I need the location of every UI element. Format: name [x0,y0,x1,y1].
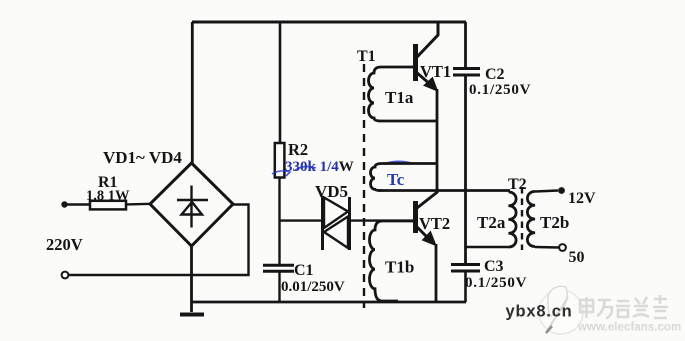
wire: R1 to bridge left corner [126,203,151,206]
wire: VD5 to VT2 base [350,219,415,221]
wire: VT1 emitter down to mid bus [436,89,439,191]
winding T2a [509,192,517,247]
svg-text:T2b: T2b [540,213,569,232]
resistor R2 body [275,143,285,178]
svg-text:T1: T1 [357,48,376,65]
svg-text:VT2: VT2 [419,214,450,233]
svg-text:12V: 12V [568,190,596,207]
wire: T2a bottom return to C3 branch [466,246,509,249]
watermark chinese characters [580,295,668,318]
svg-text:T2: T2 [508,176,527,193]
wire: mid bus from Tc to T2a [378,189,510,192]
capacitor C3 plates [451,263,480,266]
svg-text:Tc: Tc [387,170,405,189]
wire: T2b top to 12V terminal [535,191,558,192]
svg-text:VD5: VD5 [315,182,348,201]
node: 12V terminal (filled dot) [558,187,565,194]
bridge inner diode [177,186,208,228]
svg-text:VD1~ VD4: VD1~ VD4 [103,148,182,167]
svg-text:T1b: T1b [385,258,414,277]
wire: C1 bottom to ground bus [278,271,280,302]
blue ink mark over R2 value [272,166,316,176]
wire: bridge bottom corner down to ground bus [190,246,193,312]
node: 220V neutral terminal (open circle) [62,272,69,279]
wire: R2 branch from top bus [279,22,282,143]
svg-text:0.01/250V: 0.01/250V [281,279,345,295]
watermark logo circle [539,286,583,334]
wire: right vertical top bus to C2 [464,22,467,69]
wire: junction to VD5 [280,219,323,221]
svg-text:R2: R2 [288,140,308,159]
node: output terminal (open circle) [559,244,566,251]
svg-text:220V: 220V [46,235,83,254]
winding T2b [527,191,535,246]
wire: live terminal to R1 [66,203,90,205]
wire: left vertical from top bus to bridge top corner [191,22,194,163]
wire: top bus from left vertical to C2 branch [192,21,466,24]
resistor R1 body [90,201,126,210]
wire: R2 bottom down to C1 [278,178,280,266]
wire: VT2 emitter down to ground bus [435,244,438,302]
svg-text:C2: C2 [485,66,505,83]
winding Tc [370,164,437,191]
svg-text:0.1/250V: 0.1/250V [469,82,531,98]
capacitor C2 plates [453,67,480,70]
winding T1a [369,67,438,121]
T1 core dashed line [363,64,365,308]
T2 core dashed line [521,187,523,250]
svg-text:T1a: T1a [385,88,414,107]
svg-text:VT1: VT1 [420,62,451,81]
svg-text:330k 1/4W: 330k 1/4W [285,159,354,175]
wire: T2b bottom to output terminal [535,246,559,249]
ground symbol [180,313,204,317]
wire: C2 to mid bus and down to C3 [464,75,467,265]
svg-text:C1: C1 [294,262,314,279]
svg-text:50: 50 [569,249,585,266]
wire: neutral terminal to bridge right corner [69,205,249,276]
node: 220V live terminal (filled dot) [61,201,67,207]
svg-text:ybx8.cn: ybx8.cn [506,303,573,321]
svg-text:www.elecfans.com: www.elecfans.com [577,321,681,334]
blue ink mark over Tc top edge [384,162,412,164]
svg-text:0.1/250V: 0.1/250V [465,275,527,291]
bridge rectifier VD1~VD4 diamond [150,163,233,246]
capacitor C1 plates [263,264,294,267]
wire: C3 bottom to ground bus [464,271,467,302]
VT2 emitter arrow [423,232,437,246]
svg-text:1.8 1W: 1.8 1W [86,188,130,204]
winding T1b [370,221,415,301]
diac VD5 [323,196,350,250]
VT1 emitter arrow [424,78,438,92]
svg-text:T2a: T2a [477,213,506,232]
transistor VT1 [416,22,439,85]
transistor VT2 [416,192,439,239]
wire: bottom ground bus [191,301,466,304]
svg-text:C3: C3 [484,258,504,275]
